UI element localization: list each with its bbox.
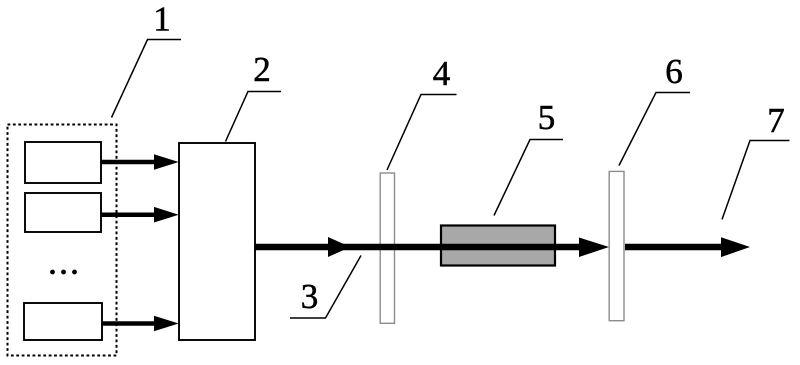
leader line for label 7 [722, 141, 790, 220]
ellipsis dots [50, 270, 77, 275]
laser source box B [25, 193, 101, 232]
arrowhead into element 6 [579, 238, 609, 258]
svg-text:6: 6 [665, 52, 683, 91]
leader line for label 2 [226, 92, 282, 142]
optical plate element 4 [380, 173, 394, 323]
arrow from box A to unit 2 [101, 154, 179, 170]
arrow from box B to unit 2 [101, 207, 179, 223]
main beam line (net 3) [255, 244, 581, 251]
arrow from box C to unit 2 [102, 316, 179, 332]
svg-text:2: 2 [253, 50, 271, 89]
output arrowhead [721, 237, 750, 257]
svg-text:1: 1 [153, 0, 171, 39]
leader line for label 4 [387, 95, 457, 171]
dashed enclosure box (laser array unit 1) [8, 125, 117, 356]
svg-text:7: 7 [767, 101, 785, 140]
leader line for label 6 [619, 93, 690, 166]
output beam line (net 7) [625, 244, 723, 251]
svg-text:4: 4 [433, 54, 451, 93]
mid-beam arrowhead [328, 237, 351, 257]
laser source box A [25, 142, 101, 183]
svg-text:5: 5 [538, 98, 556, 137]
beam combiner box (unit 2) [179, 143, 255, 340]
gray crystal element 5 [441, 226, 555, 266]
leader line for label 1 [112, 40, 182, 118]
leader line for label 5 [494, 140, 563, 216]
svg-text:3: 3 [301, 277, 319, 316]
leader line for label 3 [290, 256, 361, 319]
laser source box C [24, 303, 102, 340]
optical plate element 6 [609, 171, 624, 320]
